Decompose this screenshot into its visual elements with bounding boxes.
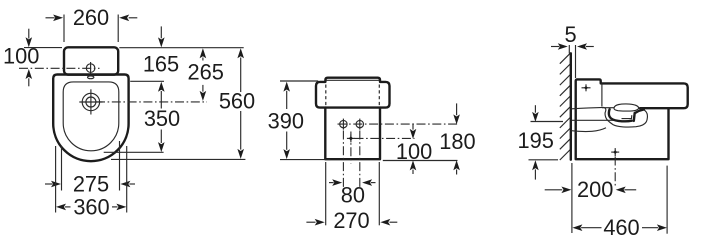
front view: drain centerline vertical <box>350 132 352 164</box>
dimension 200 arrows <box>545 189 563 191</box>
side view: supply pipe mid line <box>572 119 614 121</box>
dimension 100 arrows <box>28 29 30 39</box>
front view: lower body <box>325 108 380 160</box>
svg-text:200: 200 <box>577 177 613 202</box>
dimension 270 arrows <box>306 221 315 223</box>
svg-text:180: 180 <box>439 129 475 154</box>
svg-text:260: 260 <box>73 5 109 30</box>
plan right dims: bowl-front reference tick <box>104 151 164 153</box>
svg-text:270: 270 <box>333 208 369 233</box>
side view: supply pipe upper line <box>572 107 604 108</box>
dimension 560 <box>237 48 244 58</box>
dimension 80 arrows <box>329 182 334 184</box>
dimension 5 arrows <box>551 46 559 48</box>
dimension 100 tick (tank top extended) <box>24 47 62 49</box>
dimension 195 arrows <box>534 105 536 113</box>
front view: fixing hole left <box>340 120 347 127</box>
plan view: fixing hole <box>86 64 95 73</box>
plan view: drain centerline <box>96 101 207 103</box>
dimension 100 (front) <box>412 123 414 129</box>
side view: tap inner notch <box>622 115 632 118</box>
side view: fixing hole cross <box>582 87 591 89</box>
svg-text:80: 80 <box>341 183 365 208</box>
side view: rim underside line <box>602 107 614 109</box>
plan view: tank outline <box>64 47 118 74</box>
dimension 180 <box>456 103 458 115</box>
dimension 360 arrows <box>56 204 66 211</box>
dimension 165 <box>160 26 162 38</box>
side view: rim inner back edge <box>601 83 603 106</box>
plan right dims: top reference tick <box>119 47 243 49</box>
dimension 460 arrows <box>572 224 582 231</box>
dimension 200/460 left extension line <box>571 163 573 233</box>
front view: fixing hole vertical centerlines <box>342 131 344 190</box>
plan right dims: body-front reference tick <box>111 158 245 160</box>
plan view: tap hole <box>88 76 94 79</box>
dimension 5 extension lines <box>568 45 570 54</box>
plan view: drain outlet <box>82 93 99 110</box>
front view: drain cross <box>347 137 355 139</box>
front view: fixing hole right <box>356 120 363 127</box>
front view: fixing holes centerline <box>338 123 460 125</box>
plan view: fixing hole centerline <box>19 67 100 69</box>
dimension 460 right extension line <box>666 166 668 234</box>
side view: drain cross <box>611 151 619 153</box>
svg-text:360: 360 <box>73 194 109 219</box>
side view: tap thick body <box>609 109 632 121</box>
dimension 265 <box>200 48 207 58</box>
wall hatching <box>560 53 571 160</box>
svg-text:265: 265 <box>188 59 224 84</box>
svg-text:195: 195 <box>518 128 554 153</box>
front view: hidden body edges (dashed) <box>325 85 327 106</box>
wall line <box>570 53 572 159</box>
dimension 260 extension lines <box>63 15 65 43</box>
front view: rim box with top tab <box>316 78 390 108</box>
svg-text:560: 560 <box>219 88 255 113</box>
front view: drain centerline horizontal <box>355 137 415 139</box>
svg-text:5: 5 <box>565 22 577 47</box>
side view: tap body outline <box>604 107 648 127</box>
svg-text:100: 100 <box>3 44 39 69</box>
side view: supply pipe lower line <box>572 128 607 132</box>
side view: bidet profile <box>576 79 688 159</box>
plan view: inner bowl outline <box>63 82 119 151</box>
side view: drain centerline vertical <box>614 157 616 188</box>
plan right dims: tap-hole reference tick <box>130 80 164 82</box>
dimension 350 <box>160 91 162 109</box>
dimension 275 arrows <box>45 183 53 185</box>
dimension 390 arrows <box>283 82 290 92</box>
dimension 360 extension lines <box>55 146 57 213</box>
dimension 275 extension lines <box>61 146 63 191</box>
svg-text:350: 350 <box>144 106 180 131</box>
svg-text:165: 165 <box>143 52 179 77</box>
dimension 260 arrows <box>46 17 55 19</box>
dimension 390 ticks <box>280 80 318 82</box>
front bottom-right reference tick <box>383 160 458 162</box>
dimension 195 ticks <box>531 121 564 123</box>
svg-text:460: 460 <box>603 215 639 240</box>
dimension 270 extension lines <box>325 162 327 225</box>
plan view: body outer outline <box>53 75 128 162</box>
svg-text:390: 390 <box>268 109 304 134</box>
front view: tab underside line <box>326 79 379 81</box>
side view: tap spout dome <box>614 104 639 111</box>
svg-text:275: 275 <box>73 171 109 196</box>
